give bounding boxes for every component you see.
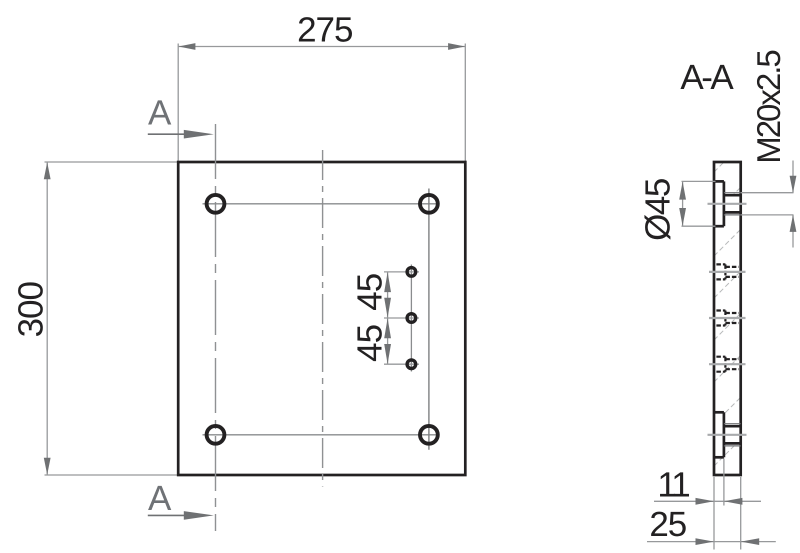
centerline top hole bbox=[708, 203, 747, 205]
bottom extension line right face bbox=[740, 477, 742, 550]
dim line Ø45 bbox=[682, 181, 684, 226]
counterbore top hole bbox=[714, 181, 741, 226]
arrowhead Ø45 top bbox=[679, 182, 686, 200]
center row line through top holes bbox=[203, 203, 439, 205]
arrowhead 300 bottom bbox=[44, 458, 51, 475]
tapped hole 1 (hidden) bbox=[716, 264, 738, 279]
hole bottom-left bbox=[207, 426, 225, 444]
hole top-right bbox=[420, 195, 438, 213]
extension line small hole 1 bbox=[384, 271, 419, 273]
plate vertical centerline bbox=[322, 150, 324, 487]
svg-text:11: 11 bbox=[657, 466, 689, 505]
hole top-left bbox=[207, 195, 225, 213]
arrowhead 45 top up bbox=[384, 272, 391, 292]
bottom extension line counterbore depth bbox=[723, 459, 725, 506]
arrowhead 275 right bbox=[448, 43, 465, 50]
extension line top of dim 300 bbox=[45, 161, 178, 163]
svg-text:45: 45 bbox=[351, 274, 390, 311]
plate outline (section) bbox=[714, 162, 741, 475]
small holes column centerline bbox=[410, 265, 412, 372]
dimension line 300 bbox=[46, 162, 48, 475]
thread major lines top hole bbox=[724, 192, 741, 194]
extension line small hole 2 bbox=[384, 317, 419, 319]
dimension line 275 bbox=[178, 46, 465, 48]
svg-text:Ø45: Ø45 bbox=[639, 179, 678, 241]
extension line left of dim 275 bbox=[177, 44, 179, 162]
section arrow top bbox=[148, 133, 190, 135]
counterbore bottom hole bbox=[714, 412, 741, 457]
arrowhead 300 top bbox=[44, 162, 51, 179]
svg-text:A-A: A-A bbox=[680, 58, 734, 97]
hatching bbox=[714, 162, 741, 466]
svg-text:M20x2.5: M20x2.5 bbox=[750, 51, 787, 164]
hole openings (white over hatch) bbox=[714, 181, 724, 226]
section arrow bottom bbox=[148, 514, 190, 516]
small hole 1 bbox=[407, 268, 416, 277]
svg-text:300: 300 bbox=[12, 281, 51, 337]
arrowhead 45 mid up bbox=[384, 318, 391, 338]
extension line small hole 3 bbox=[384, 363, 419, 365]
bottom extension line left face bbox=[713, 477, 715, 550]
small hole 3 bbox=[407, 360, 416, 369]
arrowhead 275 left bbox=[178, 43, 195, 50]
center row line through bottom holes bbox=[203, 434, 439, 436]
extension line bottom of dim 300 bbox=[45, 474, 178, 476]
dim M20x2.5 extension lines bbox=[741, 192, 794, 194]
svg-text:25: 25 bbox=[649, 505, 686, 544]
arrowhead 45 mid down bbox=[384, 298, 391, 318]
plate outline (front) bbox=[178, 162, 465, 475]
tapped hole 2 (hidden) bbox=[716, 311, 738, 326]
arrowhead 45 bottom down bbox=[384, 344, 391, 364]
dimension line 11 bbox=[654, 500, 761, 502]
dim line M20 bottom bbox=[792, 215, 794, 248]
arrowhead Ø45 bottom bbox=[679, 208, 686, 226]
svg-text:A: A bbox=[148, 94, 172, 133]
tapped hole 3 (hidden) bbox=[716, 357, 738, 372]
thread major lines bottom hole bbox=[724, 423, 741, 425]
dim line M20 top bbox=[792, 161, 794, 193]
extension line right of dim 275 bbox=[464, 44, 466, 162]
centerline bottom hole bbox=[708, 434, 747, 436]
hole bottom-right bbox=[420, 426, 438, 444]
section cut line A-A (vertical, through left holes) bbox=[215, 124, 217, 531]
svg-text:275: 275 bbox=[297, 11, 352, 50]
svg-text:45: 45 bbox=[351, 325, 390, 362]
center column line through right holes bbox=[428, 189, 430, 450]
dim Ø45 extension lines bbox=[682, 180, 716, 182]
small hole 2 bbox=[407, 314, 416, 323]
dimension line 25 bbox=[647, 541, 776, 543]
dimension line 45/45 bbox=[387, 272, 389, 364]
svg-text:A: A bbox=[148, 479, 172, 518]
